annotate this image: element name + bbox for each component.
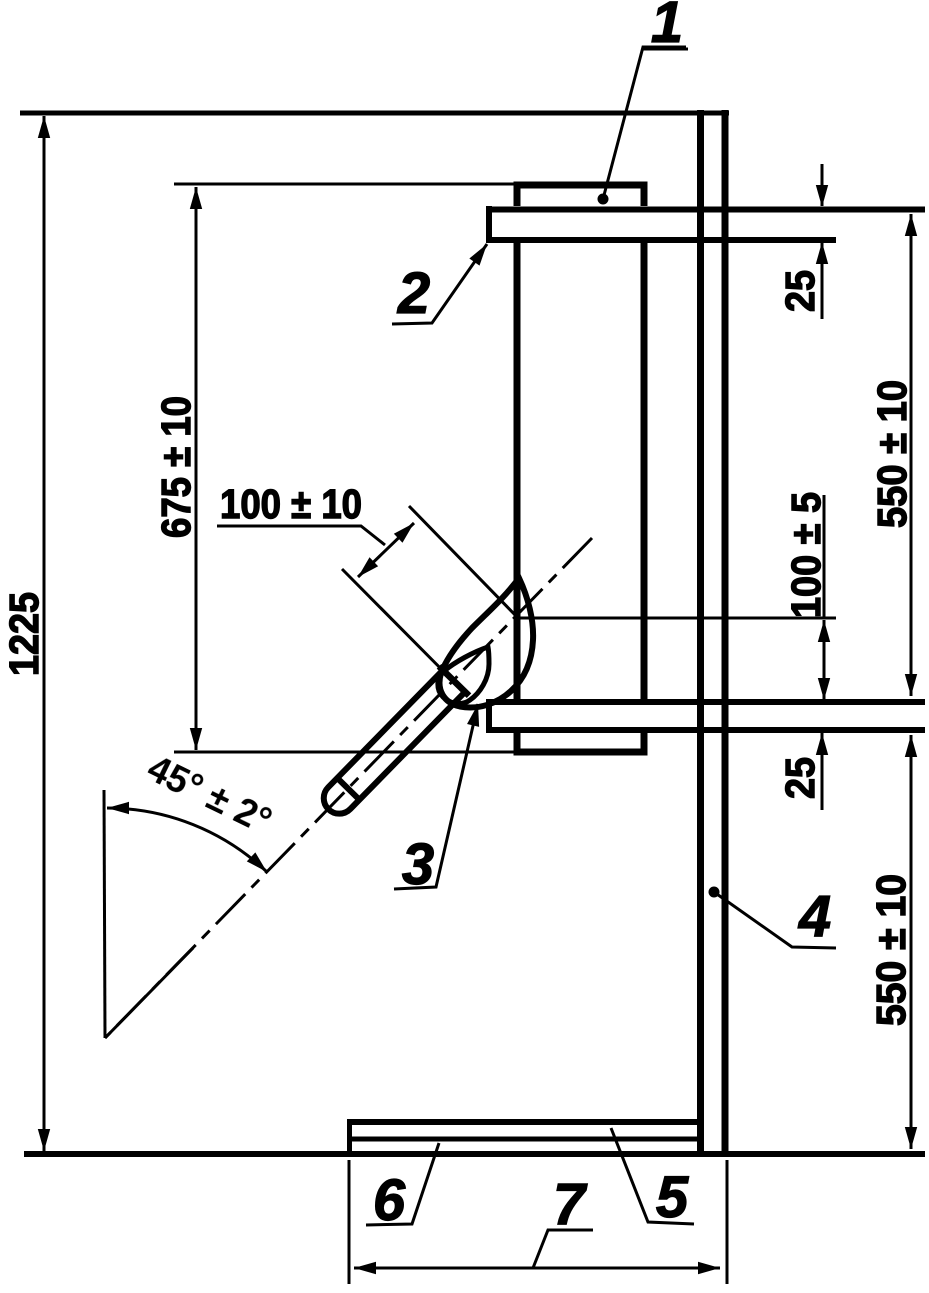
dimension line 550 ± 10 top (910, 214, 913, 696)
dimension 25 bottom: arrow with tail (821, 733, 824, 810)
svg-text:100 ± 10: 100 ± 10 (220, 481, 362, 527)
inner flame (438, 647, 489, 704)
angle dimension vertical leg (104, 790, 105, 1038)
extension line A of 100 ± 10 (through flame application point) (409, 506, 520, 620)
extension line bottom of specimen (675 dimension) (174, 751, 517, 754)
base plate (items 5 and 6) (347, 1119, 700, 1157)
dimension line 100 ± 10 (358, 523, 414, 577)
extension line 7 right (726, 1160, 729, 1284)
leader label 1 (603, 47, 686, 199)
svg-text:1: 1 (651, 0, 683, 55)
svg-text:550 ± 10: 550 ± 10 (869, 380, 915, 528)
extension line top (1225 dimension, top of panel) (20, 111, 729, 116)
dimension line 550 ± 10 bottom (910, 735, 913, 1149)
burner axis dash-dot centreline (105, 538, 592, 1038)
leader label 3 (394, 704, 478, 889)
extension line flame application point (100 ± 5 dimension) (517, 617, 836, 620)
vertical panel (item 4) (701, 110, 726, 1157)
extension line 7 left (348, 1160, 351, 1284)
burner tube (item 3) (313, 666, 469, 824)
svg-text:675 ± 10: 675 ± 10 (153, 396, 199, 538)
extension line top of specimen (675 dimension) (174, 183, 517, 186)
leader label 2 (392, 244, 487, 324)
svg-text:550 ± 10: 550 ± 10 (868, 874, 914, 1026)
svg-text:25: 25 (777, 270, 823, 312)
leader label 7 (533, 1230, 593, 1268)
dimension line 1225 (43, 116, 46, 1151)
extension line B of 100 ± 10 (through burner tip) (342, 569, 468, 696)
dimension line 675 ± 10 (195, 187, 198, 750)
dimension 25 top: upper arrow (821, 164, 824, 207)
leader of 100 ± 10 text (217, 526, 385, 545)
svg-text:6: 6 (373, 1168, 406, 1233)
ground line (24, 1151, 925, 1157)
outer flame (440, 578, 534, 707)
bottom clamp (486, 699, 925, 733)
dimension 25 top: lower arrow with tail (821, 242, 824, 319)
svg-text:25: 25 (777, 757, 823, 799)
leader label 5 (611, 1128, 694, 1224)
svg-text:3: 3 (402, 832, 434, 897)
leader label 4 (714, 892, 836, 948)
svg-text:2: 2 (397, 261, 430, 326)
leader label 6 (366, 1143, 439, 1225)
svg-text:5: 5 (656, 1165, 689, 1230)
dimension line 7 (354, 1267, 720, 1270)
angle dimension arc 45° (107, 808, 267, 872)
specimen (item 1) (517, 185, 644, 752)
svg-text:100 ± 5: 100 ± 5 (783, 492, 829, 618)
svg-text:7: 7 (553, 1172, 588, 1237)
svg-text:1225: 1225 (1, 592, 47, 676)
svg-text:4: 4 (798, 884, 831, 949)
dimension line 100 ± 5 with tail (823, 495, 826, 618)
top clamp (item 2) (486, 206, 925, 243)
